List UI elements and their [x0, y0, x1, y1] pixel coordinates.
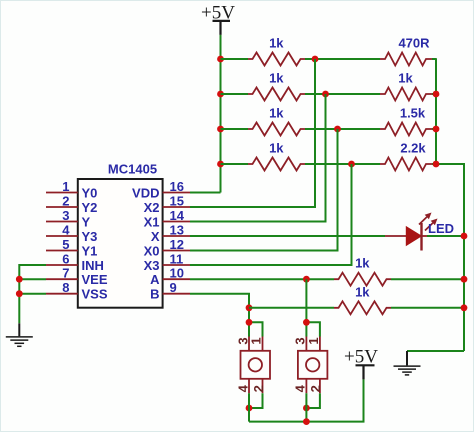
svg-text:1: 1 [62, 179, 69, 194]
pin 7 VEE [46, 266, 108, 287]
svg-text:14: 14 [170, 208, 185, 223]
wire INH/VEE/VSS left rail [19, 265, 46, 323]
svg-text:1.5k: 1.5k [400, 106, 426, 121]
wire row4 left segment [221, 163, 249, 165]
svg-text:4: 4 [293, 384, 308, 392]
pin 6 INH [46, 252, 104, 273]
power +5V supply (bottom) [344, 347, 378, 380]
wire row2 right stub [432, 93, 437, 95]
svg-text:470R: 470R [398, 36, 430, 51]
pin 15 X2 [144, 194, 190, 215]
junction SW2 top [303, 319, 310, 326]
pin 10 A [150, 266, 190, 287]
junction row4 mid [348, 161, 355, 168]
junction SW1 top [246, 319, 253, 326]
svg-text:INH: INH [82, 258, 104, 273]
svg-text:1k: 1k [355, 284, 370, 299]
svg-text:X2: X2 [144, 200, 160, 215]
resistor 1k (row A) [334, 256, 391, 286]
ground (right) [394, 351, 421, 375]
ground (left) [6, 323, 33, 346]
resistor 2.2k (row4 right) [380, 141, 432, 171]
svg-text:13: 13 [170, 223, 184, 238]
junction right col row2 [433, 91, 440, 98]
wire row B left segment [249, 307, 334, 309]
svg-text:MC1405: MC1405 [108, 161, 157, 176]
wire row1 right stub [432, 58, 437, 60]
wire row1 junction down to X2 pin15 [190, 59, 315, 207]
pin 1 Y0 [46, 179, 97, 200]
pushbutton SW1 [235, 337, 270, 394]
svg-text:11: 11 [170, 252, 184, 267]
svg-text:4: 4 [62, 223, 70, 238]
resistor 1k (row B) [334, 284, 391, 314]
pin 2 Y2 [46, 194, 97, 215]
svg-text:Y0: Y0 [82, 185, 98, 200]
svg-text:8: 8 [62, 280, 69, 295]
svg-text:1k: 1k [398, 71, 413, 86]
junction LED right rail [461, 233, 468, 240]
junction SW2 bottom rail [303, 418, 310, 425]
pin 12 X0 [144, 237, 190, 258]
wire row2 junction down to X1 pin14 [190, 94, 326, 222]
wire row1 middle segment [305, 58, 380, 60]
wire row2 left segment [221, 93, 249, 95]
junction row3 mid [334, 126, 341, 133]
wire right column rail (470R..2.2k) [436, 59, 464, 351]
junction right col row3 [433, 126, 440, 133]
junction SW1 bottom [246, 405, 253, 412]
svg-text:X3: X3 [144, 258, 160, 273]
junction row2 mid [322, 91, 329, 98]
LED [385, 213, 454, 251]
wire row4 middle segment [305, 163, 380, 165]
wire VSS to rail [19, 293, 46, 295]
svg-text:X1: X1 [144, 214, 160, 229]
pin 16 VDD [132, 179, 190, 200]
svg-text:12: 12 [170, 237, 184, 252]
resistor 1k (row3 left) [248, 106, 305, 136]
wire row3 right stub [432, 128, 437, 130]
wire row1 left segment [221, 58, 249, 60]
wire SW2 pin2 bottom bend [306, 393, 320, 408]
svg-text:15: 15 [170, 194, 184, 209]
wire X pin13 to LED anode [190, 235, 385, 237]
svg-text:4: 4 [235, 384, 250, 392]
junction rail row2 [217, 91, 224, 98]
IC MC1405 body U1 [78, 161, 163, 307]
wire row A to right rail [391, 278, 464, 280]
resistor 1k (row1 left) [248, 36, 305, 66]
junction row1 mid [312, 56, 319, 63]
wire B pin9 down to button SW1 [190, 294, 249, 337]
wire row B to right rail [391, 307, 464, 309]
pin 9 B [150, 280, 190, 301]
svg-text:VEE: VEE [82, 272, 108, 287]
resistor 1.5k (row3 right) [380, 106, 432, 136]
svg-text:7: 7 [62, 266, 69, 281]
svg-text:3: 3 [62, 208, 69, 223]
junction row B right rail [461, 304, 468, 311]
wire bottom rail to +5V [249, 379, 364, 421]
wire VDD pin16 to rail [190, 192, 221, 194]
wire row3 middle segment [305, 128, 380, 130]
wire right rail to ground [407, 350, 464, 352]
wire SW1 pin1 top bend [249, 322, 263, 336]
wire SW2 pin1 top bend [306, 322, 320, 336]
wire row3 junction down to X0 pin12 [190, 129, 338, 251]
svg-text:10: 10 [170, 266, 184, 281]
pin 5 Y1 [46, 237, 97, 258]
pin 4 Y3 [46, 223, 97, 244]
wire row2 middle segment [305, 93, 380, 95]
svg-text:LED: LED [428, 221, 454, 236]
svg-text:1k: 1k [269, 106, 284, 121]
svg-text:2: 2 [308, 385, 323, 392]
wire SW1 pin2 bottom bend [249, 393, 263, 408]
junction row B branch [246, 304, 253, 311]
junction VEE rail [16, 276, 23, 283]
svg-text:Y: Y [82, 214, 91, 229]
pushbutton SW2 [293, 337, 328, 394]
pin 11 X3 [144, 252, 190, 273]
svg-text:2.2k: 2.2k [400, 141, 426, 156]
svg-text:X: X [151, 229, 160, 244]
svg-text:VSS: VSS [82, 287, 108, 302]
wire A pin10 row [190, 278, 334, 280]
svg-text:5: 5 [62, 237, 69, 252]
resistor 1k (row4 left) [248, 141, 305, 171]
junction rail row4 [217, 161, 224, 168]
wire +5V rail vertical [220, 35, 222, 193]
svg-text:X0: X0 [144, 243, 160, 258]
pin 13 X [151, 223, 190, 244]
junction rail row1 [217, 56, 224, 63]
wire row A down to button SW2 [305, 279, 307, 336]
svg-text:9: 9 [170, 280, 177, 295]
pin 8 VSS [46, 280, 108, 301]
junction row A button2 branch [303, 276, 310, 283]
junction row A right rail [461, 276, 468, 283]
resistor 1k (row2 right) [380, 71, 432, 101]
wire SW1 to bottom rail [248, 393, 250, 421]
svg-text:1k: 1k [269, 141, 284, 156]
svg-text:1k: 1k [269, 71, 284, 86]
junction right col row4 [433, 161, 440, 168]
svg-text:1: 1 [306, 337, 321, 344]
wire SW2 to bottom rail [305, 393, 307, 421]
resistor 1k (row2 left) [248, 71, 305, 101]
junction rail row3 [217, 126, 224, 133]
svg-text:A: A [150, 272, 160, 287]
svg-text:VDD: VDD [132, 185, 159, 200]
svg-text:B: B [150, 287, 159, 302]
svg-text:1: 1 [249, 337, 264, 344]
wire row4 junction down to X3 pin11 [190, 164, 352, 265]
pin 14 X1 [144, 208, 190, 229]
wire VEE to rail [19, 278, 46, 280]
power +5V supply (top) [201, 3, 235, 35]
junction SW2 bottom [303, 405, 310, 412]
svg-text:2: 2 [62, 194, 69, 209]
wire LED cathode to right rail [427, 235, 464, 237]
resistor 470R (row1 right) [380, 36, 432, 66]
pin 3 Y [46, 208, 91, 229]
svg-text:Y2: Y2 [82, 200, 98, 215]
svg-text:Y1: Y1 [82, 243, 98, 258]
svg-text:6: 6 [62, 252, 69, 267]
wire row3 left segment [221, 128, 249, 130]
svg-text:1k: 1k [355, 256, 370, 271]
svg-text:16: 16 [170, 179, 184, 194]
junction VSS rail [16, 290, 23, 297]
wire row4 right stub [432, 163, 437, 165]
svg-text:2: 2 [251, 385, 266, 392]
svg-text:1k: 1k [269, 36, 284, 51]
svg-text:Y3: Y3 [82, 229, 98, 244]
